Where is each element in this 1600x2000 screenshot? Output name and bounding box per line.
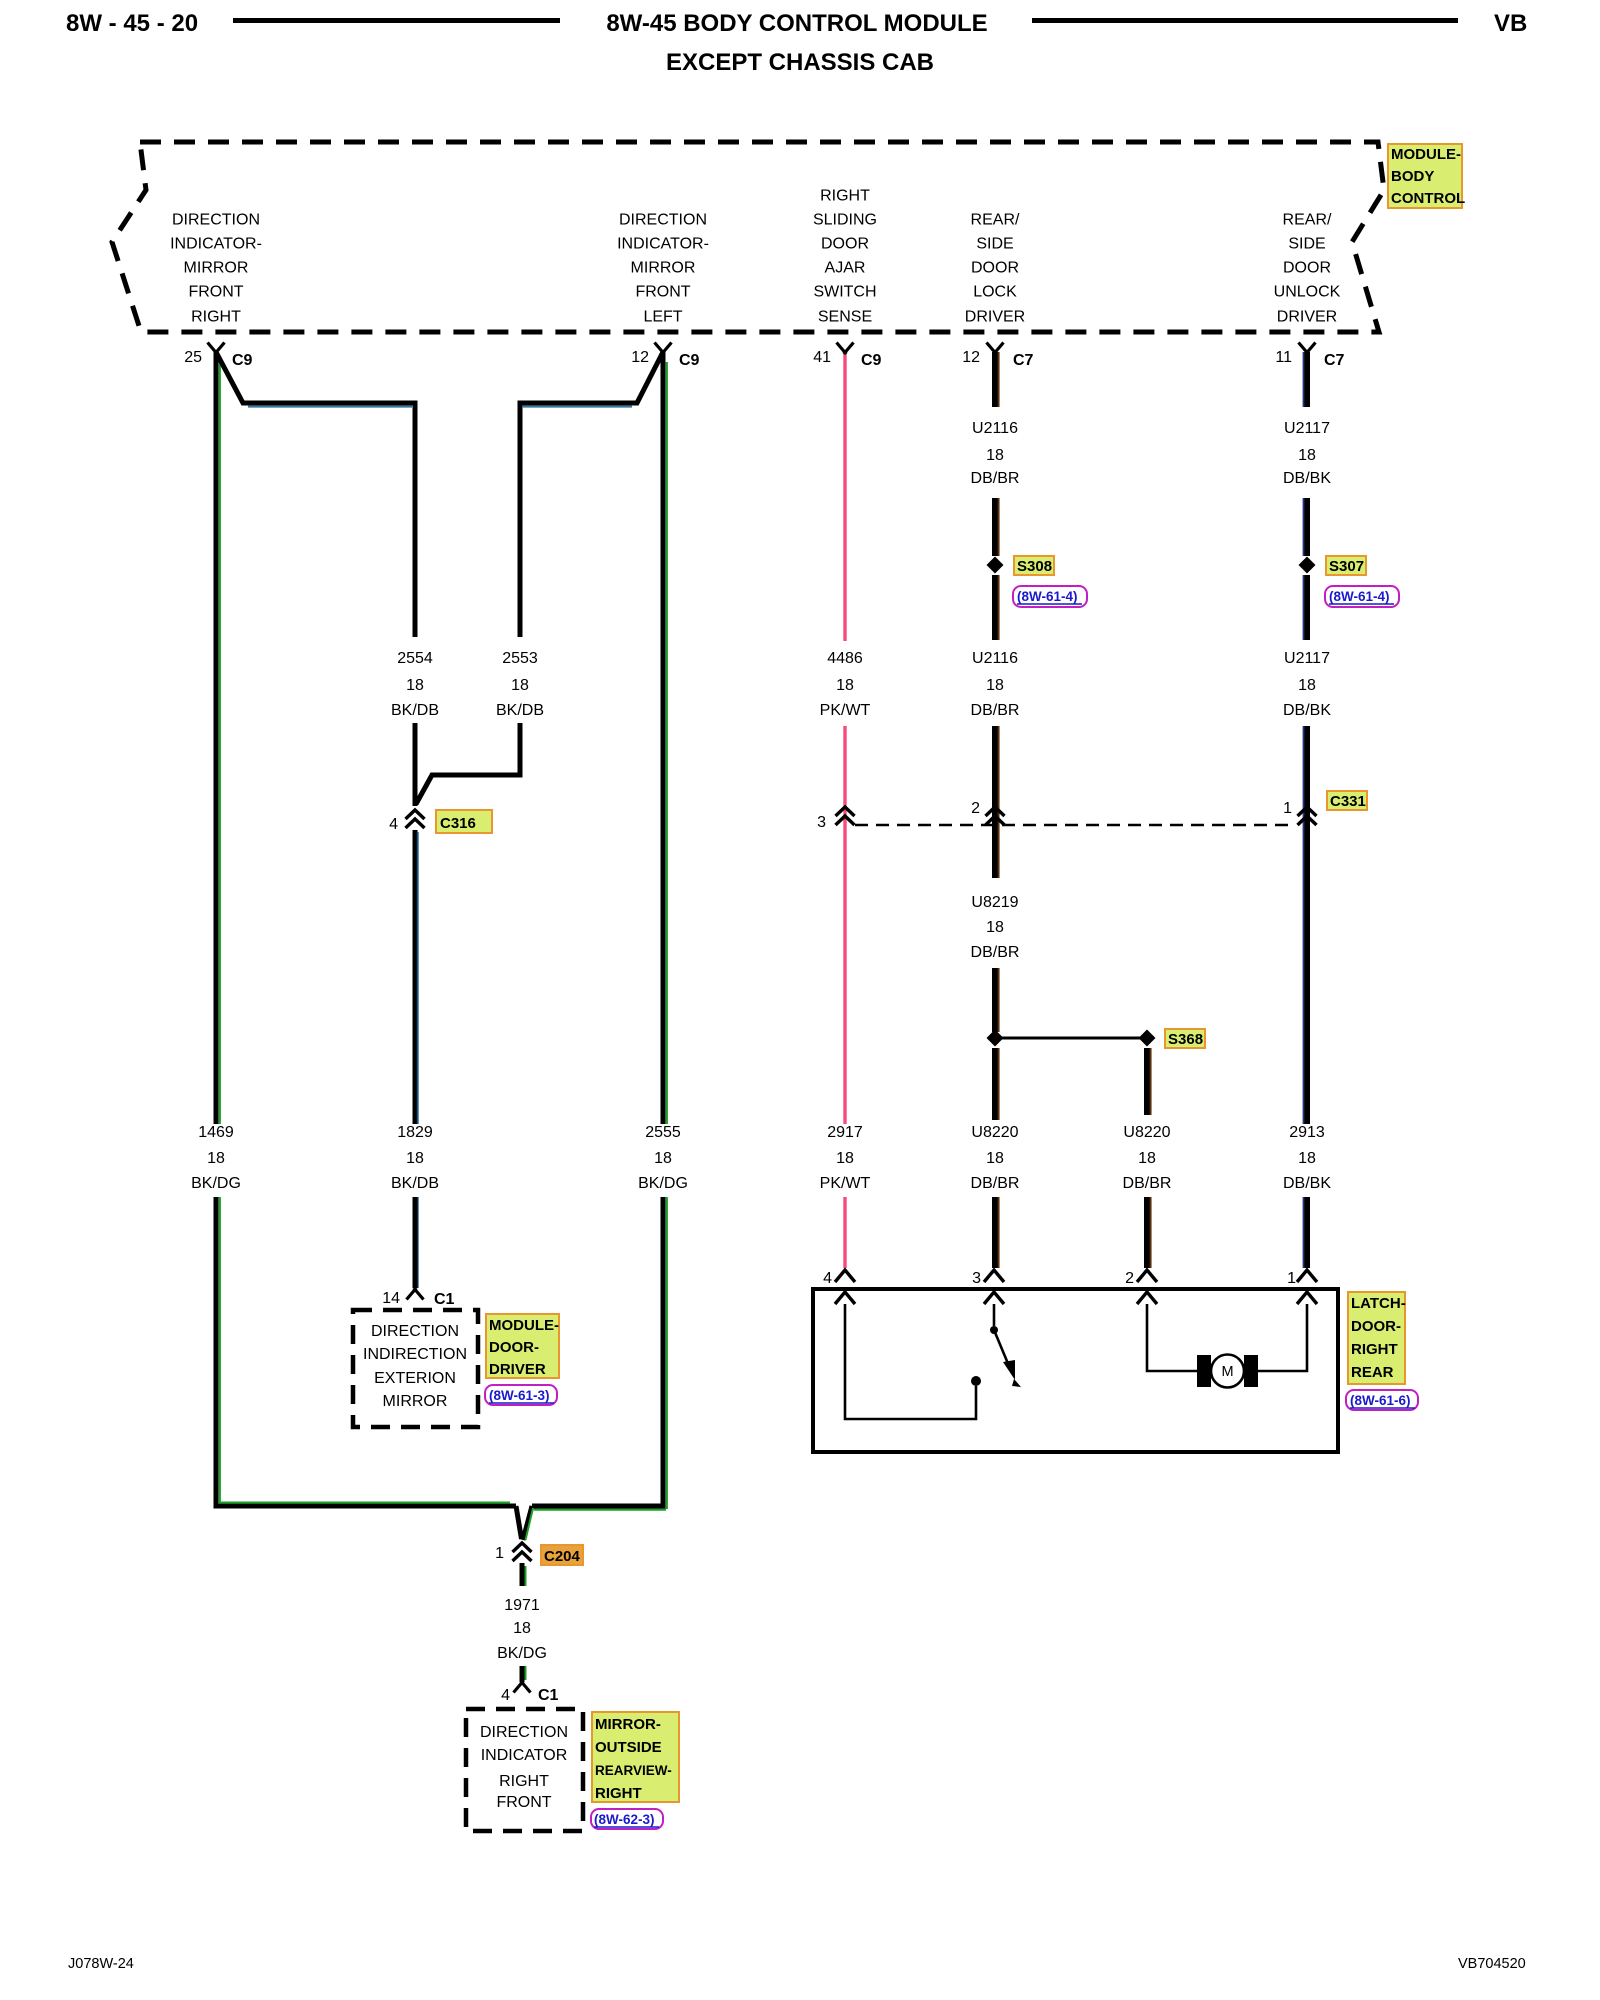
svg-text:C316: C316 <box>440 815 476 832</box>
svg-text:DB/BK: DB/BK <box>1283 470 1331 487</box>
svg-text:M: M <box>1221 1364 1233 1380</box>
svg-text:MIRROR: MIRROR <box>184 260 249 277</box>
svg-text:MODULE-: MODULE- <box>1391 146 1461 163</box>
svg-text:C9: C9 <box>861 352 882 369</box>
svg-text:S368: S368 <box>1168 1031 1203 1048</box>
svg-text:11: 11 <box>1275 349 1292 366</box>
svg-text:(8W-61-4): (8W-61-4) <box>1017 589 1078 604</box>
svg-text:14: 14 <box>382 1290 400 1307</box>
svg-text:25: 25 <box>184 349 202 366</box>
svg-text:1: 1 <box>1287 1270 1296 1287</box>
svg-text:2: 2 <box>1125 1270 1134 1287</box>
svg-text:U2116: U2116 <box>972 650 1018 667</box>
svg-text:INDIRECTION: INDIRECTION <box>363 1346 467 1363</box>
svg-text:18: 18 <box>1298 677 1316 694</box>
svg-text:C7: C7 <box>1324 352 1345 369</box>
svg-text:S307: S307 <box>1329 558 1364 575</box>
svg-text:INDICATOR: INDICATOR <box>481 1747 568 1764</box>
svg-text:18: 18 <box>1298 1150 1316 1167</box>
svg-text:C1: C1 <box>434 1291 455 1308</box>
svg-text:RIGHT: RIGHT <box>820 188 870 205</box>
svg-text:18: 18 <box>986 677 1004 694</box>
svg-text:1: 1 <box>1283 800 1292 817</box>
svg-text:DB/BR: DB/BR <box>971 1175 1020 1192</box>
svg-text:SIDE: SIDE <box>1288 236 1325 253</box>
svg-text:18: 18 <box>511 677 529 694</box>
svg-text:DIRECTION: DIRECTION <box>480 1724 568 1741</box>
svg-text:UNLOCK: UNLOCK <box>1274 284 1341 301</box>
svg-text:SWITCH: SWITCH <box>813 284 876 301</box>
svg-text:SLIDING: SLIDING <box>813 212 877 229</box>
svg-text:LATCH-: LATCH- <box>1351 1295 1406 1312</box>
svg-text:C9: C9 <box>232 352 253 369</box>
svg-text:1469: 1469 <box>198 1124 234 1141</box>
svg-text:18: 18 <box>406 1150 424 1167</box>
svg-text:SIDE: SIDE <box>976 236 1013 253</box>
svg-text:18: 18 <box>986 447 1004 464</box>
svg-text:DOOR: DOOR <box>821 236 869 253</box>
svg-text:C1: C1 <box>538 1687 559 1704</box>
svg-text:CONTROL: CONTROL <box>1391 190 1465 207</box>
svg-text:INDICATOR-: INDICATOR- <box>617 236 709 253</box>
svg-text:DB/BR: DB/BR <box>971 702 1020 719</box>
svg-text:BK/DB: BK/DB <box>391 1175 439 1192</box>
svg-text:REAR/: REAR/ <box>1283 212 1332 229</box>
svg-text:2917: 2917 <box>827 1124 863 1141</box>
svg-text:U2116: U2116 <box>972 420 1018 437</box>
svg-text:DOOR-: DOOR- <box>489 1339 539 1356</box>
svg-text:DB/BR: DB/BR <box>1123 1175 1172 1192</box>
svg-text:2913: 2913 <box>1289 1124 1325 1141</box>
svg-text:18: 18 <box>986 919 1004 936</box>
svg-text:MIRROR: MIRROR <box>383 1393 448 1410</box>
svg-text:C9: C9 <box>679 352 700 369</box>
svg-text:FRONT: FRONT <box>496 1794 551 1811</box>
svg-text:18: 18 <box>836 1150 854 1167</box>
svg-text:RIGHT: RIGHT <box>1351 1341 1398 1358</box>
svg-text:18: 18 <box>654 1150 672 1167</box>
svg-text:U8219: U8219 <box>971 894 1018 911</box>
svg-text:LEFT: LEFT <box>643 309 682 326</box>
svg-text:DB/BK: DB/BK <box>1283 1175 1331 1192</box>
svg-text:RIGHT: RIGHT <box>499 1773 549 1790</box>
svg-text:BODY: BODY <box>1391 168 1434 185</box>
svg-text:18: 18 <box>406 677 424 694</box>
svg-text:DOOR-: DOOR- <box>1351 1318 1401 1335</box>
svg-text:BK/DB: BK/DB <box>496 702 544 719</box>
svg-text:DRIVER: DRIVER <box>1277 309 1337 326</box>
svg-text:DRIVER: DRIVER <box>965 309 1025 326</box>
svg-text:REAR/: REAR/ <box>971 212 1020 229</box>
svg-text:8W-45 BODY CONTROL MODULE: 8W-45 BODY CONTROL MODULE <box>606 10 987 37</box>
svg-text:2553: 2553 <box>502 650 538 667</box>
svg-text:DB/BR: DB/BR <box>971 470 1020 487</box>
svg-text:DB/BK: DB/BK <box>1283 702 1331 719</box>
svg-text:18: 18 <box>986 1150 1004 1167</box>
svg-text:2554: 2554 <box>397 650 433 667</box>
svg-text:BK/DG: BK/DG <box>497 1645 547 1662</box>
svg-text:DIRECTION: DIRECTION <box>371 1323 459 1340</box>
svg-text:12: 12 <box>631 349 649 366</box>
svg-text:S308: S308 <box>1017 558 1052 575</box>
svg-text:(8W-61-3): (8W-61-3) <box>489 1388 550 1403</box>
svg-text:U8220: U8220 <box>1123 1124 1170 1141</box>
svg-text:DIRECTION: DIRECTION <box>619 212 707 229</box>
svg-text:LOCK: LOCK <box>973 284 1017 301</box>
svg-text:VB704520: VB704520 <box>1458 1956 1526 1972</box>
svg-text:C331: C331 <box>1330 793 1366 810</box>
svg-text:AJAR: AJAR <box>825 260 866 277</box>
svg-text:(8W-62-3): (8W-62-3) <box>594 1812 655 1827</box>
svg-text:RIGHT: RIGHT <box>191 309 241 326</box>
svg-text:4: 4 <box>501 1687 510 1704</box>
svg-text:REARVIEW-: REARVIEW- <box>595 1763 672 1778</box>
svg-text:3: 3 <box>817 814 826 831</box>
svg-text:2555: 2555 <box>645 1124 681 1141</box>
svg-text:BK/DG: BK/DG <box>638 1175 688 1192</box>
svg-text:INDICATOR-: INDICATOR- <box>170 236 262 253</box>
svg-text:18: 18 <box>836 677 854 694</box>
svg-text:REAR: REAR <box>1351 1364 1394 1381</box>
svg-text:8W - 45 - 20: 8W - 45 - 20 <box>66 10 198 37</box>
svg-text:PK/WT: PK/WT <box>820 1175 871 1192</box>
svg-text:MODULE-: MODULE- <box>489 1317 559 1334</box>
svg-text:2: 2 <box>971 800 980 817</box>
svg-text:12: 12 <box>962 349 980 366</box>
svg-text:PK/WT: PK/WT <box>820 702 871 719</box>
svg-text:U2117: U2117 <box>1284 650 1330 667</box>
svg-text:DRIVER: DRIVER <box>489 1361 546 1378</box>
svg-text:3: 3 <box>972 1270 981 1287</box>
svg-text:OUTSIDE: OUTSIDE <box>595 1739 662 1756</box>
svg-text:U8220: U8220 <box>971 1124 1018 1141</box>
svg-text:BK/DG: BK/DG <box>191 1175 241 1192</box>
svg-text:RIGHT: RIGHT <box>595 1785 642 1802</box>
svg-text:SENSE: SENSE <box>818 309 872 326</box>
svg-text:18: 18 <box>513 1620 531 1637</box>
svg-text:C7: C7 <box>1013 352 1034 369</box>
svg-text:41: 41 <box>813 349 831 366</box>
svg-text:DOOR: DOOR <box>971 260 1019 277</box>
svg-text:18: 18 <box>207 1150 225 1167</box>
svg-text:1829: 1829 <box>397 1124 433 1141</box>
svg-text:VB: VB <box>1494 10 1527 37</box>
svg-text:C204: C204 <box>544 1548 581 1565</box>
svg-text:1971: 1971 <box>504 1597 540 1614</box>
svg-text:FRONT: FRONT <box>188 284 243 301</box>
svg-text:FRONT: FRONT <box>635 284 690 301</box>
svg-text:MIRROR: MIRROR <box>631 260 696 277</box>
svg-text:U2117: U2117 <box>1284 420 1330 437</box>
svg-text:4: 4 <box>823 1270 832 1287</box>
svg-text:EXCEPT CHASSIS CAB: EXCEPT CHASSIS CAB <box>666 49 934 76</box>
svg-text:DOOR: DOOR <box>1283 260 1331 277</box>
svg-text:EXTERION: EXTERION <box>374 1370 456 1387</box>
svg-text:DB/BR: DB/BR <box>971 944 1020 961</box>
svg-text:4486: 4486 <box>827 650 863 667</box>
svg-text:BK/DB: BK/DB <box>391 702 439 719</box>
svg-text:18: 18 <box>1138 1150 1156 1167</box>
svg-text:18: 18 <box>1298 447 1316 464</box>
svg-text:(8W-61-4): (8W-61-4) <box>1329 589 1390 604</box>
svg-text:MIRROR-: MIRROR- <box>595 1716 661 1733</box>
svg-text:J078W-24: J078W-24 <box>68 1956 134 1972</box>
svg-text:(8W-61-6): (8W-61-6) <box>1350 1393 1411 1408</box>
svg-text:DIRECTION: DIRECTION <box>172 212 260 229</box>
svg-text:4: 4 <box>389 816 398 833</box>
svg-text:1: 1 <box>495 1545 504 1562</box>
